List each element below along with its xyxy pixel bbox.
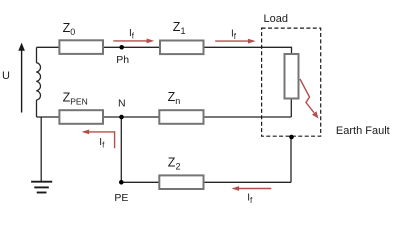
svg-text:PE: PE: [114, 192, 128, 204]
svg-text:Ph: Ph: [116, 54, 129, 66]
svg-text:U: U: [2, 70, 10, 82]
svg-text:Load: Load: [264, 13, 288, 25]
svg-text:N: N: [118, 98, 126, 110]
svg-text:Earth Fault: Earth Fault: [336, 125, 390, 137]
